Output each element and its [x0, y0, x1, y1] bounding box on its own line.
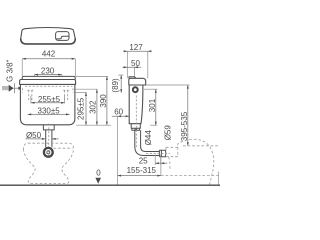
svg-text:127: 127: [129, 43, 143, 52]
svg-text:442: 442: [42, 50, 56, 59]
svg-text:Ø59: Ø59: [163, 125, 172, 141]
svg-text:395-535: 395-535: [180, 111, 189, 141]
svg-text:295±5: 295±5: [77, 97, 86, 120]
svg-text:155-315: 155-315: [127, 166, 157, 175]
svg-text:50: 50: [131, 59, 140, 68]
svg-text:(89): (89): [111, 78, 120, 93]
svg-text:60: 60: [114, 107, 123, 116]
svg-text:25: 25: [139, 156, 148, 165]
svg-text:301: 301: [148, 98, 157, 112]
svg-text:302: 302: [89, 100, 98, 114]
svg-text:390: 390: [99, 94, 108, 108]
svg-text:230: 230: [41, 66, 55, 75]
svg-text:Ø44: Ø44: [144, 130, 153, 146]
svg-text:330±5: 330±5: [38, 106, 61, 115]
svg-text:G 3/8": G 3/8": [6, 59, 15, 82]
svg-text:255±5: 255±5: [38, 95, 61, 104]
svg-text:0: 0: [96, 169, 101, 178]
